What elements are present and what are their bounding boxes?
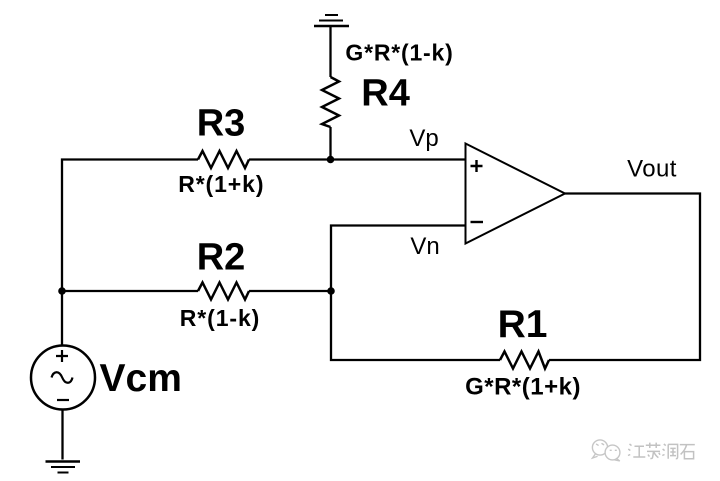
svg-text:Vp: Vp (409, 125, 438, 152)
svg-text:R1: R1 (498, 303, 548, 346)
svg-text:G*R*(1-k): G*R*(1-k) (345, 40, 453, 66)
svg-text:Vn: Vn (410, 233, 439, 260)
svg-text:Vout: Vout (627, 156, 677, 183)
svg-text:R4: R4 (361, 73, 410, 115)
svg-text:G*R*(1+k): G*R*(1+k) (465, 374, 581, 401)
svg-text:R*(1+k): R*(1+k) (178, 171, 264, 197)
svg-text:Vcm: Vcm (100, 357, 182, 400)
svg-text:R2: R2 (197, 237, 246, 279)
svg-text:R3: R3 (197, 103, 246, 145)
svg-text:R*(1-k): R*(1-k) (180, 305, 260, 331)
